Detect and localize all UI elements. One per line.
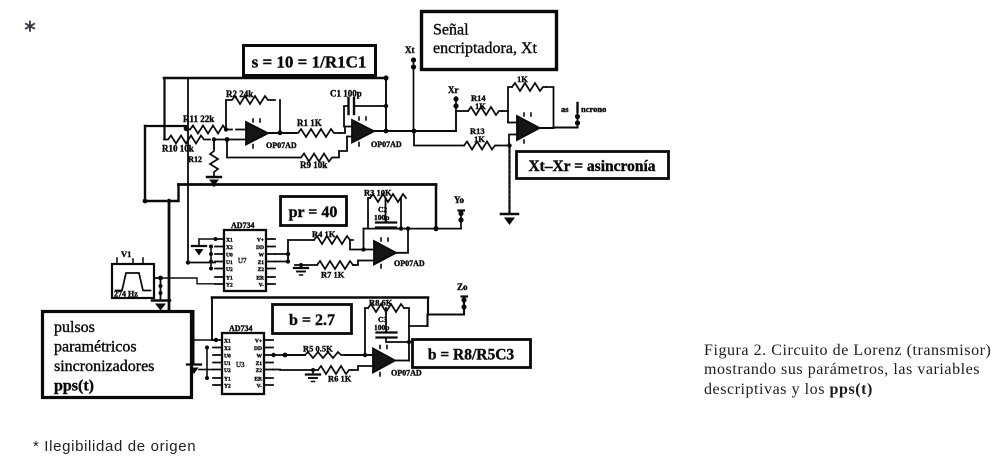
svg-text:ER: ER (256, 276, 265, 282)
svg-text:b = R8/R5C3: b = R8/R5C3 (428, 347, 515, 364)
resistor R2 feedback (224, 89, 283, 135)
svg-text:Y2: Y2 (226, 283, 233, 289)
wire U1 output (268, 132, 296, 134)
svg-text:V+: V+ (257, 238, 264, 244)
ground left of U7 (192, 237, 218, 256)
ground R7 input (294, 263, 317, 275)
wire ground drop from + input (508, 146, 510, 214)
svg-text:pulsos: pulsos (54, 319, 95, 336)
pulse source V1 (112, 249, 163, 299)
op-amp U5 (OP07 integrator 2) (361, 238, 425, 268)
svg-text:W: W (257, 354, 263, 360)
wire U7 pin link vertical (209, 245, 213, 271)
op-amp U2 (OP07 integrator 1) (352, 117, 402, 149)
wire U6 output (395, 360, 409, 362)
capacitor C2 (374, 198, 396, 229)
box label b = 2.7 (273, 305, 352, 334)
ground below subtractor (501, 214, 518, 225)
node Zo terminal (457, 282, 468, 310)
svg-text:R6 1K: R6 1K (328, 374, 352, 384)
svg-text:paramétricos: paramétricos (54, 339, 137, 356)
resistor R11 (183, 114, 246, 134)
svg-text:Y1: Y1 (226, 276, 233, 282)
svg-text:Y1: Y1 (224, 377, 231, 383)
resistor R13 (414, 126, 517, 150)
svg-text:Yo: Yo (454, 195, 465, 205)
node Xt branch junction (412, 129, 417, 134)
svg-text:AD734: AD734 (229, 324, 253, 333)
svg-text:U3: U3 (236, 361, 245, 369)
svg-text:V-: V- (259, 283, 265, 289)
node Xr terminal (448, 85, 459, 111)
wire horizontal bus y184 (179, 183, 437, 186)
node T junction (167, 199, 171, 203)
svg-text:R12: R12 (188, 155, 202, 164)
wire pulse rail into U3 region (193, 311, 195, 364)
resistor R9 (227, 137, 352, 171)
svg-text:X2: X2 (224, 346, 231, 352)
IC U7 AD734 multiplier (215, 221, 275, 291)
svg-text:1K: 1K (517, 74, 528, 84)
svg-text:Z2: Z2 (256, 368, 263, 374)
resistor R10 (162, 136, 246, 154)
wire thick vertical to pulse area (168, 201, 171, 311)
op-amp U6 (OP07 integrator 3) (363, 346, 422, 378)
op-amp U1 (OP07 first stage) (246, 119, 297, 150)
svg-text:U2: U2 (226, 267, 233, 273)
node Xt terminal (405, 45, 416, 131)
wire left rail vertical (144, 126, 146, 201)
ground R6 input (273, 368, 320, 382)
svg-text:V+: V+ (255, 339, 262, 345)
IC U3 AD734 multiplier (213, 324, 273, 394)
svg-text:C1 100p: C1 100p (330, 89, 362, 99)
ground below V1 (152, 278, 170, 311)
svg-text:pps(t): pps(t) (54, 378, 94, 395)
footnote: Ilegibilidad de origen (33, 438, 196, 455)
node left rail corner (143, 199, 148, 204)
node Yo terminal (454, 195, 465, 229)
wire rail bottom jog (145, 185, 179, 202)
svg-text:X1: X1 (224, 339, 231, 345)
resistor R14 (456, 93, 508, 115)
resistor R6 (318, 366, 373, 384)
node C1 junction (384, 104, 388, 108)
svg-text:b = 2.7: b = 2.7 (289, 312, 335, 329)
svg-text:Xt: Xt (405, 45, 415, 55)
svg-text:Z1: Z1 (256, 361, 263, 367)
caption: Figura 2 (704, 341, 991, 400)
svg-text:X2: X2 (226, 245, 233, 251)
svg-text:274 Hz: 274 Hz (114, 290, 138, 299)
wire top feedback rail (164, 77, 386, 80)
svg-text:R1 1K: R1 1K (297, 118, 322, 128)
svg-text:pr = 40: pr = 40 (289, 204, 338, 221)
resistor R4 (288, 229, 374, 250)
svg-text:R9 10k: R9 10k (300, 160, 327, 170)
wire pulse feed to U7 Y2 (161, 278, 215, 284)
svg-text:R5 0.5K: R5 0.5K (303, 344, 333, 354)
svg-text:U7: U7 (238, 257, 247, 265)
svg-text:sincronizadores: sincronizadores (54, 358, 154, 375)
svg-text:R4 1K: R4 1K (312, 229, 336, 239)
box label s = 10 = 1/R1C1 (244, 46, 376, 76)
wire U2 output to Xr corner (374, 130, 456, 132)
svg-text:OP07AD: OP07AD (394, 259, 425, 268)
svg-text:Zo: Zo (457, 282, 468, 292)
resistor R12 with ground (188, 137, 221, 186)
svg-text:as: as (561, 104, 569, 114)
svg-text:Z2: Z2 (258, 267, 265, 273)
svg-text:R2 24k: R2 24k (226, 89, 253, 99)
svg-text:U1: U1 (224, 361, 231, 367)
capacitor C1 (330, 89, 386, 127)
svg-text:OP07AD: OP07AD (391, 369, 422, 378)
svg-text:AD734: AD734 (231, 221, 255, 230)
svg-text:V1: V1 (121, 249, 131, 259)
box label pulsos parametricos (43, 312, 192, 398)
svg-text:W: W (259, 253, 265, 259)
box label pr = 40 (281, 197, 347, 226)
svg-text:U0: U0 (226, 253, 233, 259)
box label Xt-Xr asincronia (517, 152, 669, 179)
svg-text:X1: X1 (226, 238, 233, 244)
asterisk marker top-left (26, 22, 34, 31)
svg-text:DD: DD (254, 346, 262, 352)
wire integrator output vertical (385, 78, 387, 131)
wire bus corner down to Zo (428, 298, 465, 327)
svg-text:Señal: Señal (433, 22, 469, 39)
node rail junction (383, 75, 388, 80)
wire vertical R11 feed (187, 78, 189, 263)
resistor R3 feedback (364, 188, 407, 250)
svg-text:encriptadora, Xt: encriptadora, Xt (433, 40, 538, 57)
svg-text:R11 22k: R11 22k (183, 114, 214, 124)
wire rail drop to R10 (163, 78, 165, 139)
box label b = R8/R5C3 (413, 340, 531, 368)
resistor feedback 1K (subtractor) (508, 74, 554, 128)
wire U7 U1 pin feed (188, 262, 215, 264)
box label Senal encriptadora Xt (422, 12, 557, 70)
wire U5 output up to feedback (396, 229, 408, 253)
wire loop to Zo corner (409, 325, 428, 327)
svg-text:OP07AD: OP07AD (371, 140, 402, 149)
wire bus drop to U3 X1 (211, 298, 213, 341)
wire U7 W and Z1 to node (275, 240, 290, 264)
svg-text:s = 10 = 1/R1C1: s = 10 = 1/R1C1 (252, 53, 367, 72)
wire left input segment (145, 125, 186, 127)
wire subtractor output (540, 127, 578, 130)
svg-text:Xr: Xr (448, 85, 459, 95)
svg-text:ER: ER (254, 377, 263, 383)
wire feedback bottom rail to Yo (364, 226, 462, 231)
node output junction (384, 129, 389, 134)
capacitor C3 (374, 308, 411, 344)
svg-text:U1: U1 (226, 260, 233, 266)
ground left of U3 (187, 365, 213, 375)
svg-text:R10 10k: R10 10k (162, 144, 194, 154)
svg-text:ncrono: ncrono (581, 104, 606, 114)
svg-text:R8 6K: R8 6K (369, 298, 393, 308)
wire U3 W to R5 (271, 353, 287, 358)
svg-text:Xt–Xr = asincronía: Xt–Xr = asincronía (528, 158, 655, 175)
wire bus drop to Yo node (435, 185, 438, 229)
svg-text:100p: 100p (374, 213, 389, 222)
resistor R7 (317, 261, 374, 280)
resistor R1 (296, 118, 352, 137)
svg-text:OP07AD: OP07AD (266, 141, 297, 150)
wire U3 pin link vertical (194, 340, 213, 380)
resistor R8 feedback (365, 298, 409, 361)
svg-text:Z1: Z1 (258, 260, 265, 266)
resistor R5 (285, 344, 373, 359)
svg-text:U2: U2 (224, 368, 231, 374)
svg-text:V-: V- (257, 384, 263, 390)
svg-text:1K: 1K (474, 134, 485, 144)
op-amp U4 (OP07 subtractor) (517, 113, 540, 143)
svg-text:100p: 100p (374, 323, 389, 332)
node output terminal asincrono (561, 103, 606, 128)
wire top bus of bottom section (212, 296, 428, 299)
wire Xr corner vertical (455, 111, 457, 131)
svg-text:1K: 1K (475, 101, 486, 111)
svg-text:Y2: Y2 (224, 384, 231, 390)
svg-text:U0: U0 (224, 354, 231, 360)
svg-text:R7 1K: R7 1K (321, 270, 345, 280)
svg-text:R3 10K: R3 10K (364, 188, 392, 198)
svg-text:DD: DD (256, 245, 264, 251)
